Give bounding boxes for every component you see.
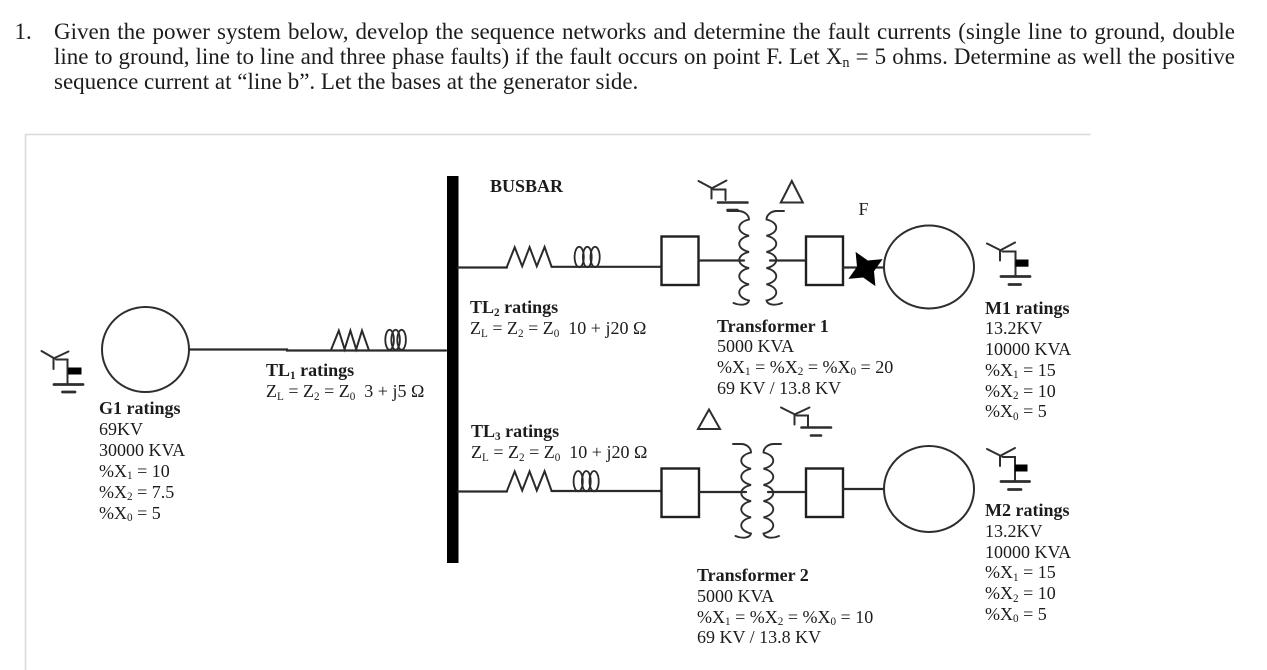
wire: T1 box to motor M1 (through fault point F) [843,266,884,268]
motor M2 [884,446,974,532]
Transformer 2 ratings label [697,565,873,648]
fault point F star [848,252,882,286]
busbar label [490,176,563,196]
generator G1 [102,307,189,392]
wire: busbar to TL3 resistor [458,490,507,492]
transformer T1 secondary winding [767,211,785,305]
delta symbol of transformer T2 primary [698,410,720,430]
transformer T1 primary-side box [662,237,699,286]
inductor of TL1 [385,330,406,350]
transformer T2 secondary-side box [806,469,843,518]
busbar [447,176,459,563]
wire: T2 box to primary winding [699,491,746,493]
resistor of TL3 [507,471,552,491]
wire: TL3 resistor to transformer 2 primary box [552,490,662,492]
delta symbol of transformer T1 secondary [781,181,803,203]
inductor of TL3 [574,471,599,491]
TL2 ratings label [470,297,646,339]
wire: TL2 resistor to transformer 1 primary box [552,266,662,268]
wire: T1 winding to secondary box [770,259,806,261]
fault point F label [859,199,869,219]
Transformer 1 ratings label [717,316,893,399]
wire: G1 to busbar (line a / TL1 feeder) [189,350,446,351]
transformer T1 secondary-side box [806,237,843,286]
wire: T2 box to motor M2 (line b) [843,488,884,490]
G1 ratings label [99,398,185,524]
M1 ratings label [985,298,1071,423]
wire: T1 box to primary winding [699,259,745,261]
grounded wye with neutral impedance for motor M2 [987,448,1030,490]
transformer T1 primary winding [728,211,750,305]
transformer T2 primary winding [733,444,751,538]
TL3 ratings label [471,421,647,463]
M2 ratings label [985,500,1071,625]
wire: busbar to TL2 resistor [458,266,507,268]
inductor of TL2 [575,247,600,267]
grounded wye with neutral impedance for generator G1 [42,351,84,392]
transformer T2 primary-side box [662,469,700,518]
grounded wye symbol of transformer T2 secondary [781,408,831,436]
resistor of TL2 [507,247,552,267]
problem statement paragraph [15,19,32,44]
transformer T2 secondary winding [764,444,782,538]
TL1 ratings label [266,360,424,402]
resistor of TL1 [331,331,368,350]
wire: T2 winding to secondary box [768,491,806,493]
grounded wye with neutral impedance for motor M1 [987,243,1030,285]
grounded wye symbol of transformer T1 primary [699,181,748,211]
motor M1 [884,226,974,309]
